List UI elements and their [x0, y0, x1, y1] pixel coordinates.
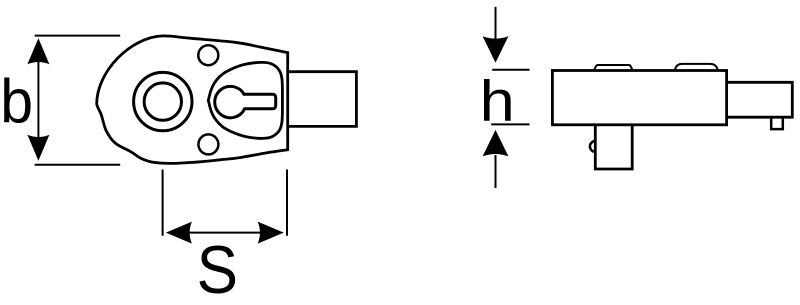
side view square drive	[595, 125, 632, 169]
dimension S: right arrowhead	[258, 222, 284, 244]
drive ring outer circle	[134, 72, 192, 130]
drive ring inner circle	[144, 83, 181, 120]
dimension S: horizontal line	[180, 232, 270, 234]
dimension h: up arrowhead	[483, 130, 509, 157]
dimension b: up arrowhead	[27, 38, 49, 64]
svg-text:S: S	[197, 231, 238, 305]
side view body	[552, 71, 726, 125]
svg-text:b: b	[0, 66, 33, 136]
dimension h: bottom extension line	[491, 123, 529, 125]
dimension b: down arrowhead	[27, 135, 49, 161]
dimension S: left extension line	[162, 170, 164, 236]
dimension S: right extension line	[286, 170, 288, 236]
side view tang	[726, 82, 792, 117]
dimension h: bottom arrow shaft	[495, 155, 497, 188]
top pin hole	[198, 45, 218, 65]
dimension h: top extension line	[492, 69, 529, 71]
ratchet head outline (top view)	[97, 36, 288, 164]
dimension b: top extension line	[35, 35, 121, 37]
lever boss teardrop outline	[208, 62, 282, 138]
side view rear catch bump	[675, 64, 718, 70]
side view front catch bump	[594, 65, 632, 70]
dimension S: left arrowhead	[166, 222, 192, 244]
square tang (top view)	[289, 72, 357, 127]
dimension b: bottom extension line	[35, 164, 121, 166]
svg-text:h: h	[480, 68, 515, 133]
bottom pin hole	[198, 134, 218, 154]
dimension h: top arrow shaft	[495, 7, 497, 40]
reversing lever keyhole	[215, 86, 276, 117]
side view tang notch	[771, 117, 783, 129]
side view detent ball	[590, 141, 595, 152]
dimension h: down arrowhead	[483, 36, 509, 63]
dimension b: vertical line	[37, 50, 39, 150]
